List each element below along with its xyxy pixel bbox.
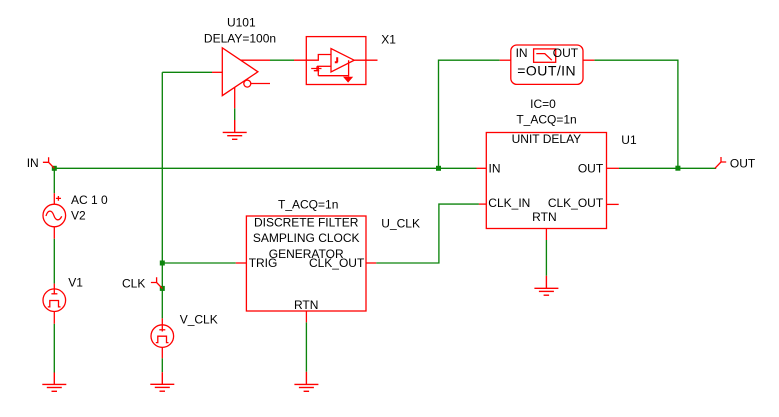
wire V1 minus to ground [53,324,55,373]
svg-text:AC 1 0: AC 1 0 [71,193,108,207]
svg-text:U1: U1 [621,133,637,147]
svg-text:OUT: OUT [553,46,579,60]
svg-text:CLK_OUT: CLK_OUT [548,196,604,210]
wire U101 ground segment [234,108,236,120]
junction node TRIG [160,261,165,266]
wire CLK to U101 input [162,71,212,73]
svg-text:V2: V2 [71,208,86,222]
svg-text:RTN: RTN [532,210,556,224]
ground under U101 [223,120,247,139]
svg-text:T_ACQ=1n: T_ACQ=1n [516,113,576,127]
ground under filter RTN [294,372,318,392]
wire U1 OUT to port OUT [619,167,716,169]
wire measure box OUT to node OUT [594,60,678,168]
svg-text:TRIG: TRIG [249,256,278,270]
wire CLK_OUT to CLK_IN [376,204,479,263]
junction node OUT [675,166,680,171]
svg-text:UNIT DELAY: UNIT DELAY [512,132,582,146]
svg-text:OUT: OUT [730,156,756,170]
svg-text:DELAY=100n: DELAY=100n [204,31,276,45]
junction node IN port [52,166,57,171]
svg-text:=OUT/IN: =OUT/IN [517,63,576,79]
subcircuit X1 [294,37,378,85]
wire V2 minus to V1 plus [53,239,55,284]
svg-text:SAMPLING CLOCK: SAMPLING CLOCK [253,231,360,245]
svg-text:T_ACQ=1n: T_ACQ=1n [278,198,338,212]
wire V_CLK to ground [161,358,163,372]
wire filter RTN to ground [305,322,307,372]
svg-text:U_CLK: U_CLK [381,217,420,231]
ground under V1 [42,373,66,392]
svg-text:X1: X1 [381,32,396,46]
svg-text:IN: IN [27,156,39,170]
junction node IN measure tap [436,166,441,171]
source V_CLK pulse [151,318,174,358]
svg-text:V1: V1 [68,276,83,290]
svg-text:OUT: OUT [578,161,604,175]
junction node CLK port [160,286,165,291]
block unit delay U1 [477,133,620,241]
source V1 pulse [43,284,66,324]
wire node IN to measure box IN [439,60,500,168]
svg-text:IN: IN [516,46,528,60]
svg-text:CLK_OUT: CLK_OUT [309,256,365,270]
wire IN horizontal net [54,167,476,169]
svg-text:CLK: CLK [122,277,145,291]
wire CLK vertical net [161,72,163,318]
ground under U1 RTN [534,276,558,295]
block discrete filter sampling clock generator [236,216,376,322]
wire IN to V2 plus [53,168,55,193]
measure box =OUT/IN [500,45,595,84]
port OUT [715,157,726,168]
port CLK [151,277,162,288]
wire U1 RTN to ground [545,240,547,276]
source V2 sine [43,193,66,239]
port IN [43,157,54,168]
svg-text:U101: U101 [227,16,256,30]
svg-text:CLK_IN: CLK_IN [488,196,530,210]
ground under V_CLK [150,372,174,391]
wire CLK to TRIG [162,262,236,264]
svg-text:IC=0: IC=0 [530,97,556,111]
svg-text:V_CLK: V_CLK [180,312,218,326]
buffer U101 [212,48,270,109]
wire U101 output to X1 input [270,59,294,61]
svg-text:DISCRETE FILTER: DISCRETE FILTER [254,216,359,230]
svg-text:RTN: RTN [294,298,318,312]
svg-text:IN: IN [489,161,501,175]
